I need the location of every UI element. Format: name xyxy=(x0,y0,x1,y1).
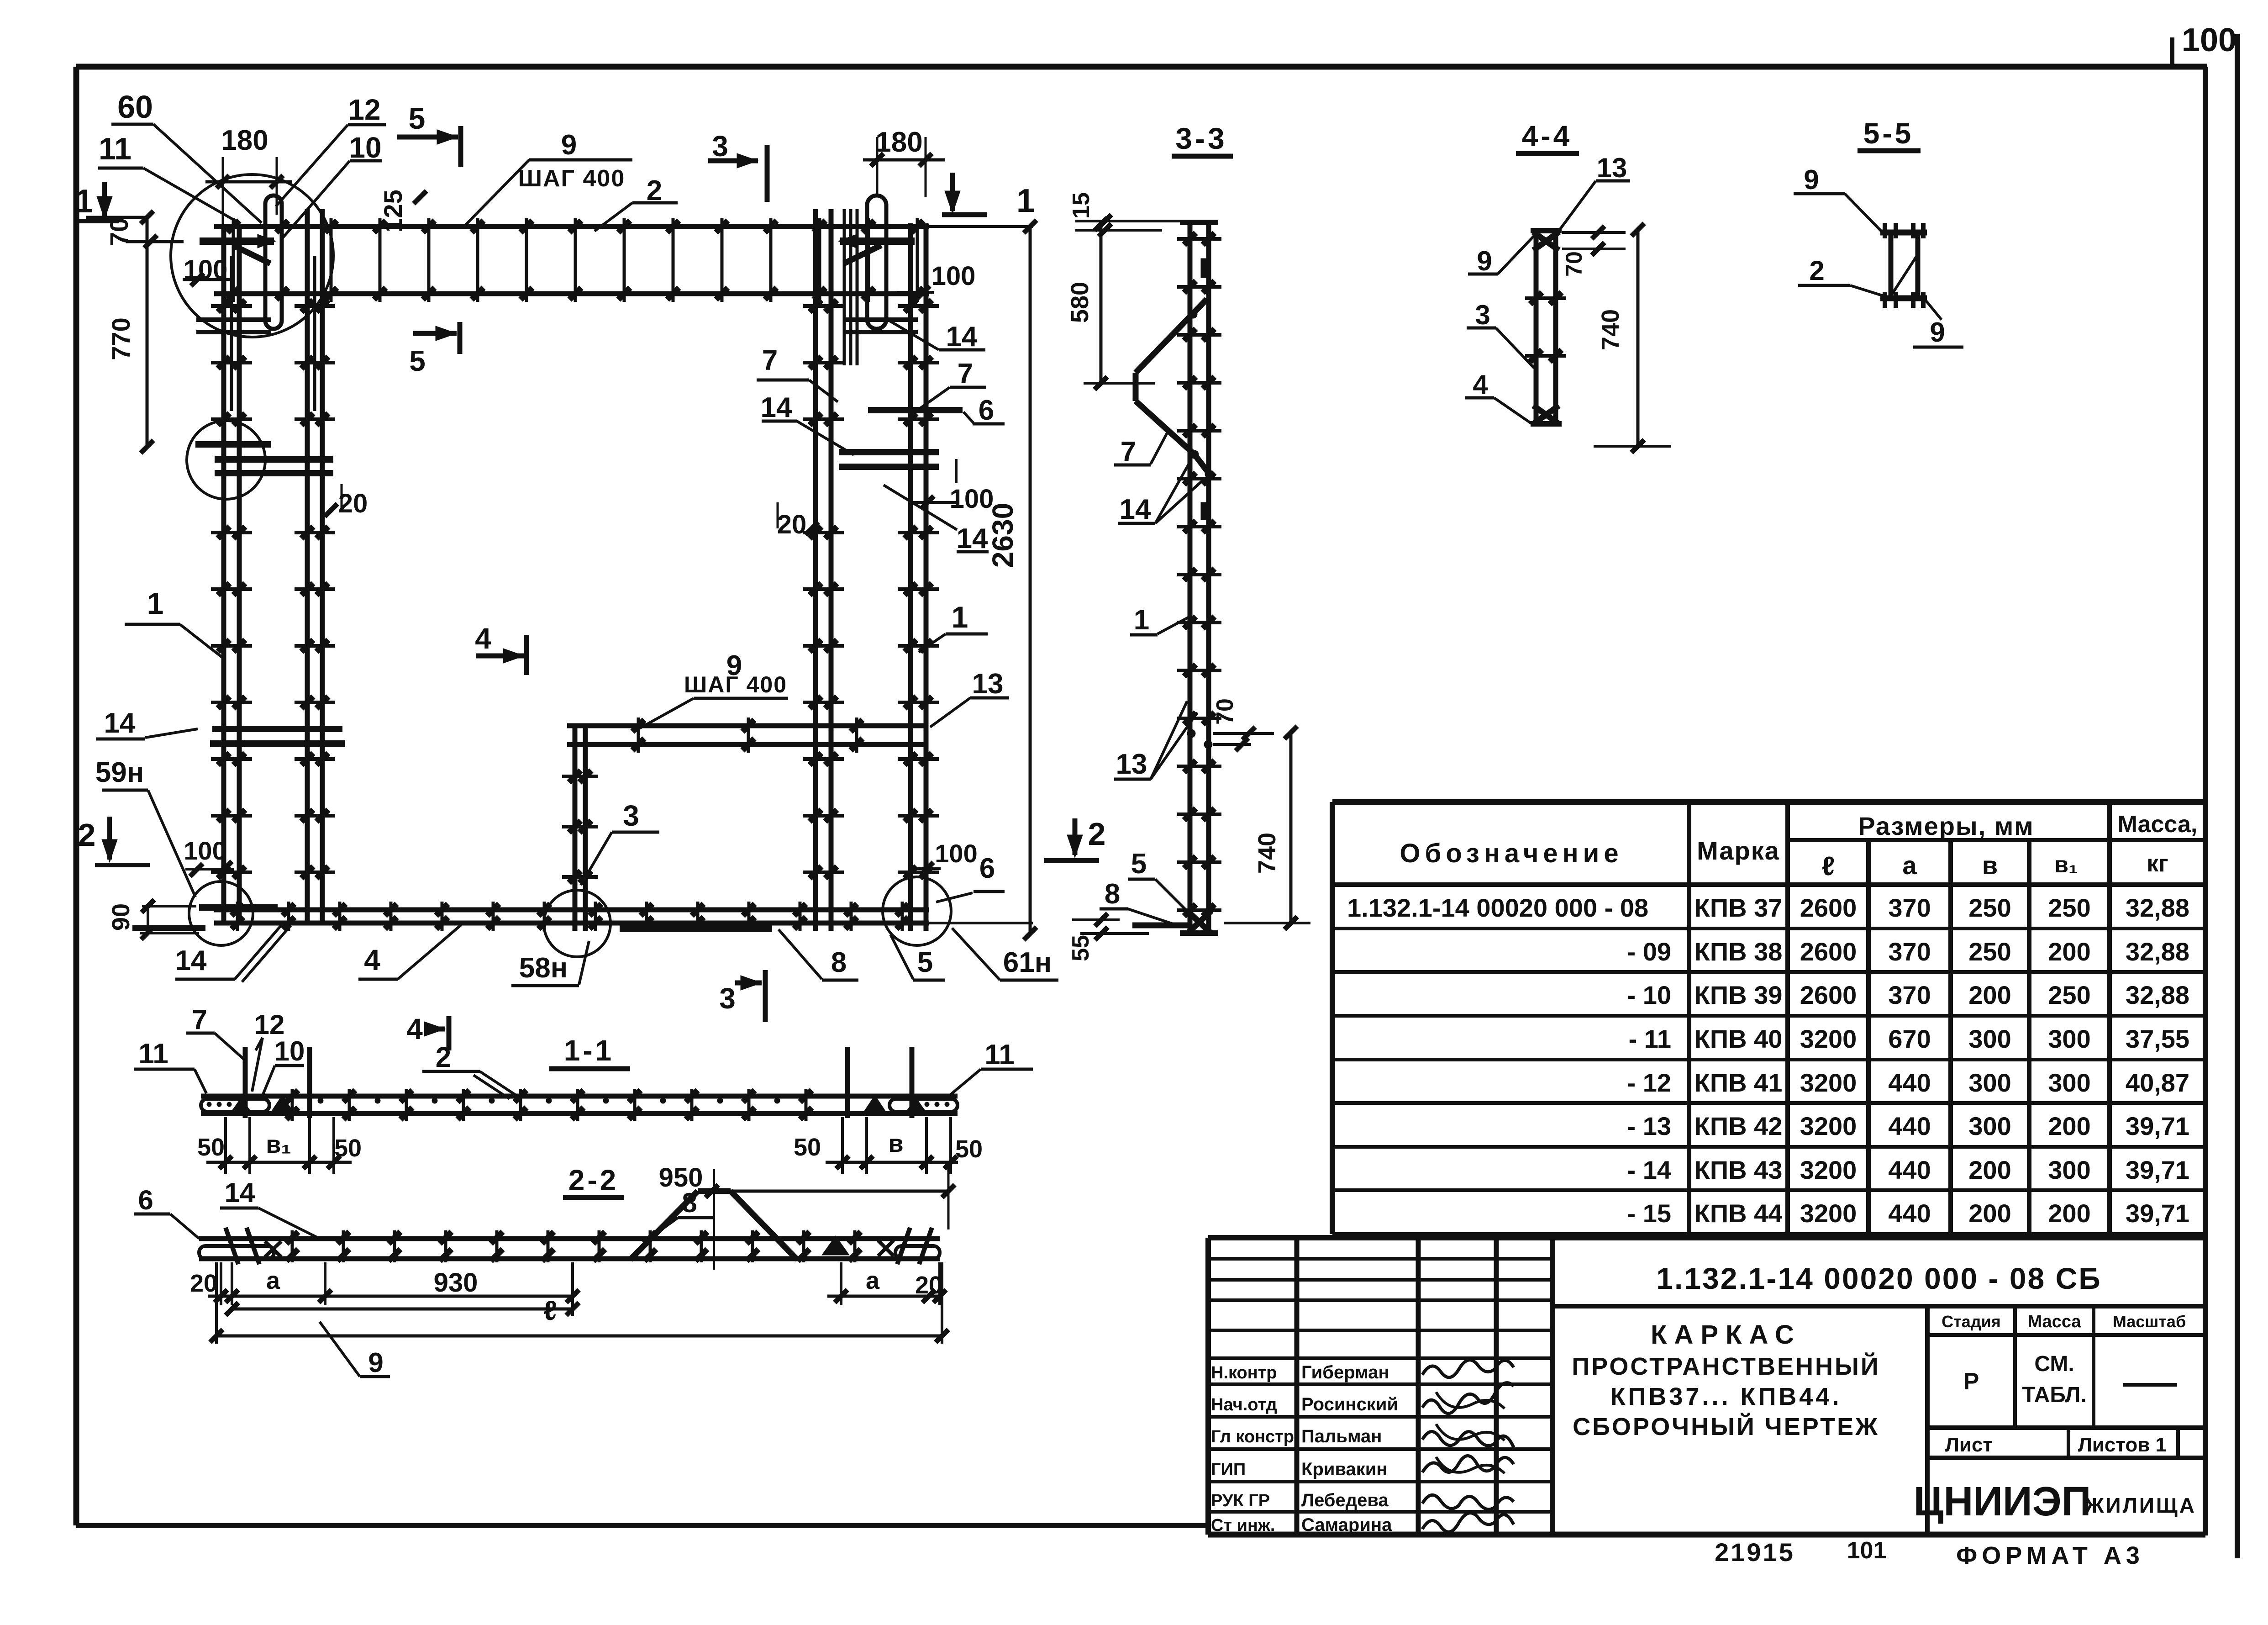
svg-text:a: a xyxy=(1902,851,1917,880)
svg-text:70: 70 xyxy=(1212,698,1238,725)
svg-text:50: 50 xyxy=(197,1134,225,1161)
svg-text:ШАГ 400: ШАГ 400 xyxy=(518,165,626,192)
svg-text:740: 740 xyxy=(1253,833,1281,874)
svg-text:СБОРОЧНЫЙ ЧЕРТЕЖ: СБОРОЧНЫЙ ЧЕРТЕЖ xyxy=(1573,1413,1879,1440)
svg-text:6: 6 xyxy=(979,395,994,426)
svg-text:59н: 59н xyxy=(95,757,144,788)
svg-text:3: 3 xyxy=(719,982,736,1015)
svg-text:7: 7 xyxy=(762,345,778,376)
svg-text:180: 180 xyxy=(221,125,268,156)
svg-text:ℓ: ℓ xyxy=(1822,851,1835,881)
svg-text:3: 3 xyxy=(623,799,639,832)
svg-text:7: 7 xyxy=(192,1004,207,1035)
svg-text:КПВ 41: КПВ 41 xyxy=(1694,1068,1783,1097)
svg-text:- 12: - 12 xyxy=(1627,1068,1672,1097)
svg-text:300: 300 xyxy=(2048,1024,2090,1053)
svg-text:1: 1 xyxy=(952,600,968,634)
svg-text:1-1: 1-1 xyxy=(564,1034,615,1067)
svg-text:ЖИЛИЩА: ЖИЛИЩА xyxy=(2084,1493,2196,1517)
svg-text:2600: 2600 xyxy=(1800,893,1857,922)
svg-text:50: 50 xyxy=(334,1134,362,1162)
svg-text:14: 14 xyxy=(957,523,988,554)
svg-text:2: 2 xyxy=(78,817,96,853)
svg-text:2600: 2600 xyxy=(1800,981,1857,1009)
svg-text:Листов 1: Листов 1 xyxy=(2078,1434,2167,1456)
svg-text:3200: 3200 xyxy=(1800,1112,1857,1140)
svg-text:5: 5 xyxy=(409,101,426,135)
svg-text:10: 10 xyxy=(274,1036,305,1066)
svg-text:440: 440 xyxy=(1888,1068,1931,1097)
svg-text:Лист: Лист xyxy=(1945,1434,1993,1456)
svg-text:50: 50 xyxy=(794,1134,821,1161)
svg-text:2: 2 xyxy=(1088,816,1106,852)
svg-text:1: 1 xyxy=(75,183,93,220)
svg-text:15: 15 xyxy=(1068,192,1095,219)
svg-text:61н: 61н xyxy=(1003,947,1052,978)
svg-text:- 13: - 13 xyxy=(1627,1112,1672,1140)
svg-text:4: 4 xyxy=(475,622,491,655)
svg-text:200: 200 xyxy=(1968,1155,2011,1184)
svg-text:Масса,: Масса, xyxy=(2118,811,2198,838)
svg-text:КПВ 42: КПВ 42 xyxy=(1694,1112,1783,1140)
svg-text:70: 70 xyxy=(1561,251,1587,277)
svg-text:8: 8 xyxy=(1105,878,1120,910)
svg-text:300: 300 xyxy=(2048,1155,2090,1184)
svg-text:1: 1 xyxy=(1016,183,1035,219)
svg-text:12: 12 xyxy=(254,1009,285,1040)
svg-text:20: 20 xyxy=(915,1272,942,1299)
svg-text:9: 9 xyxy=(1804,164,1819,195)
svg-text:200: 200 xyxy=(2048,1112,2090,1140)
svg-text:13: 13 xyxy=(1116,749,1147,780)
svg-text:5: 5 xyxy=(917,947,933,978)
svg-text:3200: 3200 xyxy=(1800,1024,1857,1053)
svg-text:250: 250 xyxy=(2048,981,2090,1009)
svg-text:Марка: Марка xyxy=(1697,836,1780,865)
svg-text:3200: 3200 xyxy=(1800,1199,1857,1228)
svg-text:13: 13 xyxy=(972,668,1004,700)
svg-text:1: 1 xyxy=(1134,604,1149,636)
svg-text:11: 11 xyxy=(138,1038,168,1070)
svg-text:100: 100 xyxy=(935,839,977,868)
svg-text:Гл констр.: Гл констр. xyxy=(1211,1427,1299,1446)
svg-text:КПВ 44: КПВ 44 xyxy=(1694,1199,1783,1228)
svg-text:- 10: - 10 xyxy=(1627,981,1672,1009)
svg-text:55: 55 xyxy=(1068,935,1094,961)
svg-text:370: 370 xyxy=(1888,981,1931,1009)
svg-text:21915: 21915 xyxy=(1715,1538,1795,1567)
svg-text:РУК ГР: РУК ГР xyxy=(1211,1491,1270,1510)
svg-text:Ст инж.: Ст инж. xyxy=(1211,1516,1275,1535)
svg-text:Нач.отд: Нач.отд xyxy=(1211,1395,1277,1414)
svg-text:200: 200 xyxy=(2048,1199,2090,1228)
svg-text:13: 13 xyxy=(1597,153,1627,183)
svg-text:2630: 2630 xyxy=(986,503,1019,568)
svg-text:250: 250 xyxy=(1968,893,2011,922)
svg-text:20: 20 xyxy=(777,510,807,539)
svg-text:ТАБЛ.: ТАБЛ. xyxy=(2022,1383,2086,1407)
svg-text:440: 440 xyxy=(1888,1199,1931,1228)
svg-text:3: 3 xyxy=(1475,300,1490,330)
svg-text:200: 200 xyxy=(1968,1199,2011,1228)
svg-text:4: 4 xyxy=(364,944,380,976)
svg-text:250: 250 xyxy=(2048,893,2090,922)
svg-text:32,88: 32,88 xyxy=(2126,937,2189,966)
svg-text:32,88: 32,88 xyxy=(2126,981,2189,1009)
svg-text:14: 14 xyxy=(175,945,207,976)
svg-text:ℓ: ℓ xyxy=(543,1295,557,1326)
svg-text:6: 6 xyxy=(979,853,995,884)
svg-text:14: 14 xyxy=(1120,494,1151,525)
svg-text:2: 2 xyxy=(436,1042,451,1073)
svg-text:100: 100 xyxy=(184,836,226,865)
svg-text:Гиберман: Гиберман xyxy=(1301,1362,1389,1382)
svg-text:9: 9 xyxy=(1930,317,1945,348)
svg-text:в: в xyxy=(888,1130,903,1157)
svg-text:в: в xyxy=(1982,851,1998,880)
svg-text:7: 7 xyxy=(1121,436,1136,468)
svg-text:90: 90 xyxy=(107,903,135,931)
svg-text:39,71: 39,71 xyxy=(2126,1199,2189,1228)
svg-text:6: 6 xyxy=(138,1185,153,1215)
svg-text:Н.контр: Н.контр xyxy=(1211,1363,1277,1382)
svg-text:100: 100 xyxy=(931,261,976,291)
svg-text:250: 250 xyxy=(1968,937,2011,966)
svg-text:370: 370 xyxy=(1888,893,1931,922)
svg-text:20: 20 xyxy=(190,1270,217,1297)
svg-text:СМ.: СМ. xyxy=(2034,1352,2074,1376)
svg-text:2600: 2600 xyxy=(1800,937,1857,966)
svg-text:9: 9 xyxy=(1477,246,1492,276)
svg-text:440: 440 xyxy=(1888,1112,1931,1140)
svg-text:12: 12 xyxy=(348,93,380,126)
svg-text:100: 100 xyxy=(2182,22,2236,58)
svg-text:300: 300 xyxy=(1968,1024,2011,1053)
svg-text:300: 300 xyxy=(1968,1112,2011,1140)
svg-text:670: 670 xyxy=(1888,1024,1931,1053)
svg-text:37,55: 37,55 xyxy=(2126,1024,2189,1053)
svg-text:60: 60 xyxy=(117,89,153,125)
svg-text:740: 740 xyxy=(1597,309,1624,350)
svg-text:ГИП: ГИП xyxy=(1211,1460,1246,1479)
svg-text:КПВ 43: КПВ 43 xyxy=(1694,1155,1783,1184)
svg-text:770: 770 xyxy=(106,317,135,360)
svg-text:101: 101 xyxy=(1847,1537,1887,1564)
svg-text:9: 9 xyxy=(561,129,577,161)
svg-text:Масса: Масса xyxy=(2027,1312,2081,1331)
svg-text:- 09: - 09 xyxy=(1627,937,1672,966)
svg-text:КПВ 40: КПВ 40 xyxy=(1694,1024,1783,1053)
svg-text:125: 125 xyxy=(379,190,407,232)
svg-text:2: 2 xyxy=(1809,255,1824,286)
svg-text:Обозначение: Обозначение xyxy=(1400,839,1623,868)
svg-text:4: 4 xyxy=(406,1013,423,1045)
svg-text:14: 14 xyxy=(225,1177,255,1208)
svg-text:1.132.1-14 00020 000 - 08: 1.132.1-14 00020 000 - 08 xyxy=(1347,893,1648,922)
svg-text:300: 300 xyxy=(2048,1068,2090,1097)
svg-text:3: 3 xyxy=(712,130,728,163)
svg-text:Стадия: Стадия xyxy=(1942,1312,2001,1331)
svg-text:- 11: - 11 xyxy=(1629,1024,1671,1053)
svg-text:КПВ 37: КПВ 37 xyxy=(1694,893,1783,922)
svg-text:- 15: - 15 xyxy=(1627,1199,1672,1228)
svg-text:a: a xyxy=(266,1267,280,1294)
svg-text:3200: 3200 xyxy=(1800,1068,1857,1097)
svg-text:в₁: в₁ xyxy=(266,1131,291,1158)
svg-text:4: 4 xyxy=(1473,369,1488,400)
svg-text:11: 11 xyxy=(99,132,132,166)
svg-text:КАРКАС: КАРКАС xyxy=(1651,1320,1801,1350)
svg-text:КПВ37... КПВ44.: КПВ37... КПВ44. xyxy=(1610,1383,1842,1410)
svg-text:14: 14 xyxy=(104,707,136,739)
svg-text:1.132.1-14 00020 000 - 08 СБ: 1.132.1-14 00020 000 - 08 СБ xyxy=(1656,1261,2101,1295)
svg-text:7: 7 xyxy=(958,358,973,390)
svg-text:10: 10 xyxy=(349,131,381,164)
svg-text:в₁: в₁ xyxy=(2054,852,2078,877)
svg-text:Р: Р xyxy=(1963,1368,1979,1395)
svg-text:Самарина: Самарина xyxy=(1301,1515,1392,1535)
svg-text:14: 14 xyxy=(946,321,978,353)
svg-text:580: 580 xyxy=(1066,282,1094,323)
svg-text:32,88: 32,88 xyxy=(2126,893,2189,922)
svg-text:3200: 3200 xyxy=(1800,1155,1857,1184)
svg-text:40,87: 40,87 xyxy=(2126,1068,2189,1097)
svg-text:Размеры, мм: Размеры, мм xyxy=(1858,812,2034,840)
svg-text:370: 370 xyxy=(1888,937,1931,966)
svg-text:3-3: 3-3 xyxy=(1175,121,1227,155)
svg-text:a: a xyxy=(866,1267,880,1294)
svg-text:440: 440 xyxy=(1888,1155,1931,1184)
svg-text:КПВ 39: КПВ 39 xyxy=(1694,981,1783,1009)
svg-text:5: 5 xyxy=(1131,848,1147,880)
svg-text:14: 14 xyxy=(761,392,792,423)
svg-text:5-5: 5-5 xyxy=(1863,117,1914,150)
svg-text:2-2: 2-2 xyxy=(568,1164,619,1197)
svg-text:8: 8 xyxy=(831,947,847,978)
svg-text:5: 5 xyxy=(409,344,426,377)
svg-text:200: 200 xyxy=(2048,937,2090,966)
svg-text:58н: 58н xyxy=(519,952,568,984)
svg-text:200: 200 xyxy=(1968,981,2011,1009)
svg-text:ШАГ 400: ШАГ 400 xyxy=(684,672,787,697)
svg-text:11: 11 xyxy=(984,1039,1015,1071)
svg-text:Лебедева: Лебедева xyxy=(1301,1490,1389,1510)
svg-text:- 14: - 14 xyxy=(1627,1155,1672,1184)
svg-text:Кривакин: Кривакин xyxy=(1301,1459,1388,1479)
svg-text:Пальман: Пальман xyxy=(1301,1426,1382,1446)
svg-text:39,71: 39,71 xyxy=(2126,1112,2189,1140)
svg-text:ПРОСТРАНСТВЕННЫЙ: ПРОСТРАНСТВЕННЫЙ xyxy=(1572,1352,1880,1380)
svg-text:Масштаб: Масштаб xyxy=(2113,1312,2186,1331)
svg-text:1: 1 xyxy=(147,586,164,620)
svg-text:39,71: 39,71 xyxy=(2126,1155,2189,1184)
svg-text:930: 930 xyxy=(434,1268,478,1298)
svg-text:кг: кг xyxy=(2147,850,2168,877)
svg-text:Росинский: Росинский xyxy=(1301,1394,1398,1414)
svg-text:КПВ 38: КПВ 38 xyxy=(1694,937,1783,966)
svg-text:ФОРМАТ А3: ФОРМАТ А3 xyxy=(1956,1542,2144,1569)
svg-text:ЦНИИЭП: ЦНИИЭП xyxy=(1914,1479,2091,1525)
svg-text:300: 300 xyxy=(1968,1068,2011,1097)
svg-text:9: 9 xyxy=(368,1347,383,1378)
svg-text:50: 50 xyxy=(955,1135,983,1163)
svg-text:4-4: 4-4 xyxy=(1522,120,1573,153)
